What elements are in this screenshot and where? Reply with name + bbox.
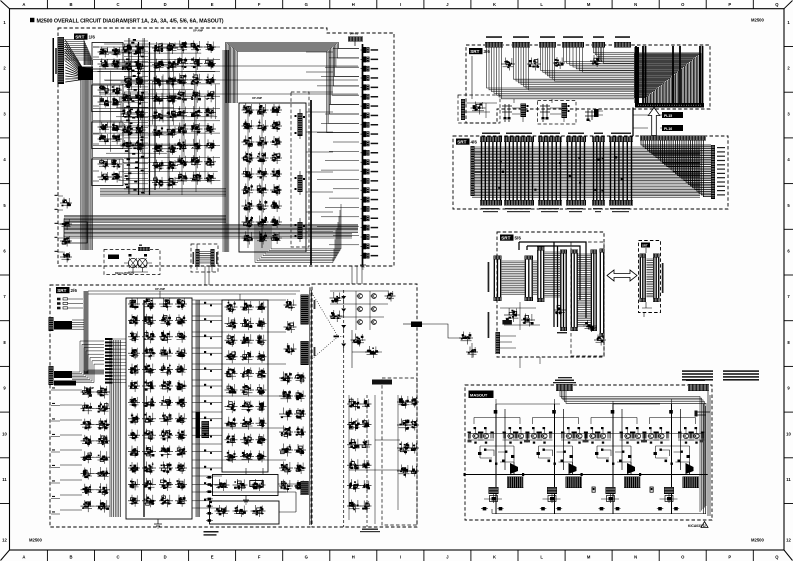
op-amp cell B2-4 [152,97,165,99]
op-amp cell D4 [242,157,255,159]
bus field S5-S6 [578,254,591,326]
driver diode 2 [569,463,577,474]
svg-text:MASOUT: MASOUT [470,393,488,398]
label in regulator box [108,255,119,260]
bus field S3-S4 [545,252,561,297]
op-amp cell B7 [121,145,134,147]
bottom pads 4 [658,507,662,510]
relay RY1 hatched [507,477,524,489]
power stub right [697,412,710,415]
svg-text:OP AMP: OP AMP [252,96,262,100]
label MASOUT [469,391,494,399]
horizontal arrow between B6 and B7 [607,270,637,281]
VR cluster between B3 and B6 [459,337,473,339]
waterfall right B5 [641,141,711,197]
output connector cell O11 [363,141,366,147]
MASOUT channel 2 power amp group [554,404,556,514]
connector group B6 S2 [525,256,534,260]
output bus rail 4 [641,474,708,476]
op-amp cell N5 [225,372,238,374]
label SRT 3/6 [469,48,483,54]
svg-text:SRT: SRT [75,35,84,40]
op-amp cell C7 [176,144,189,146]
connector strip CN41 top bar with label [482,133,500,135]
connector bottom bar CN43 [538,200,562,206]
op-amp cell M3 [128,336,140,338]
op-amp cell R4 [279,431,293,433]
op-amp cell M4 [128,352,140,354]
bias network 3 [597,446,631,462]
op-amp cell M2 [128,319,140,321]
transistor Q22 [542,433,547,438]
output bus rail 2 [524,474,591,476]
op-amp cell N9 [225,439,238,441]
bus bundle to output connectors [333,48,359,50]
op-amp cell N7 [225,406,238,408]
svg-text:P: P [728,2,731,7]
connector group B6 S1 [494,256,502,260]
svg-text:I: I [400,554,401,559]
bus bundle band3 [64,234,352,239]
op-amp cell M13 [128,500,140,502]
op-amp cell A4 [98,101,111,103]
interconnect mesh wires left half [104,43,198,45]
title M2500 OVERALL CIRCUIT DIAGRAM [30,18,34,22]
svg-text:H: H [352,2,355,7]
svg-text:M2500: M2500 [751,538,764,543]
connector pin columns CN41 [482,142,501,200]
op-amp cell C5 [176,112,189,114]
driver diode 4 [686,463,694,474]
svg-text:A: A [22,554,25,559]
connector pin columns CN46 [611,142,632,200]
vertical bus left of SRT 1/6 [81,72,93,250]
svg-text:B: B [69,2,72,7]
op-amp cell B5 [121,113,134,115]
dashed sub-box regulator [104,250,160,275]
transistor Q34 [635,433,640,438]
connector group B6 S7 [600,249,605,253]
MASOUT channel 1 power amp group [495,404,497,514]
op-amp cell B6 [121,129,134,131]
op-amp cell M10 [128,451,140,453]
inner dashed partitions B3 [343,290,345,527]
cell B3L4 [347,464,361,466]
rotated label right of B7 [662,263,664,293]
svg-text:M2500: M2500 [751,18,764,23]
connector pin columns CN44 [568,142,585,200]
op-amp cell C1 [176,46,189,48]
connector group B6 S6 [591,250,598,254]
transistor Q23 [566,433,571,438]
label under B6 [558,377,572,378]
block SRT 5/6 dashed border [497,232,604,357]
transistor array top B3 [358,294,363,299]
output connector cell O12 [363,150,366,156]
op-amp cell C3 [176,79,189,81]
inner dashed box B6 [571,242,604,356]
svg-text:2/6: 2/6 [71,288,78,293]
connector strip CN36 with label [615,36,630,38]
connector group B7 right [653,254,660,258]
output connector cell O5 [363,84,366,90]
left edge pin stubs B2 [51,389,60,391]
op-amp cell M5 [128,369,140,371]
op-amp cell L5 [81,456,94,458]
svg-text:B: B [69,554,72,559]
resistor ladder [105,338,113,340]
transistor Q32 [600,433,605,438]
transistor Q43 [683,433,688,438]
op-amp cell N10 [225,455,238,457]
label box PL15 [662,112,683,118]
svg-text:10: 10 [786,431,791,436]
output connector cell O1 [363,47,366,53]
row stub wires between rects B2 [192,303,222,305]
svg-text:SRT: SRT [57,288,66,293]
stubs B7 [642,248,652,317]
transistor Q12 [483,433,488,438]
connector bar PA input B [49,366,54,385]
tiny labels right of strips B2 [314,300,316,309]
svg-text:11: 11 [2,477,7,482]
mid cluster group G3 [585,110,595,120]
op-amp cell D6 [242,189,255,191]
mesh wires B2 [192,299,286,301]
op-amp cell L3 [81,424,94,426]
dense ladder band components [133,39,136,41]
connector cell F1 [60,202,72,204]
vertical bus mid B2 [196,300,199,517]
svg-text:OP AMP: OP AMP [155,287,165,291]
cell B3L6 [347,505,361,507]
op-amp cell C2 [176,62,189,64]
svg-text:OP AMP: OP AMP [193,29,203,33]
op-amp cell M12 [128,483,140,485]
output connector cell O3 [363,66,366,72]
output cell P3 [251,484,266,486]
right rail pair B2 [310,290,312,525]
right labels B5 [717,147,725,148]
op-amp cell B2-9 [152,181,165,183]
op-amp cell L2 [81,407,94,409]
op-amp cell A5 [98,126,111,128]
top connector CN81 label [555,380,574,382]
dense vertical waterfall block B4 [634,53,701,103]
output connector cell O21 [363,234,366,240]
text CH label bottom B6 [557,332,567,333]
dashed sub-box bottom center [191,244,218,272]
op-amp cell D3 [242,141,255,143]
cluster bottom center B6 [554,309,567,311]
connector bottom bar CN45 [592,200,605,206]
svg-text:12: 12 [2,538,7,543]
block SRT 3/6 dashed border [466,45,710,123]
vertical bus center [223,50,229,252]
block SRT 6/6 dashed border [639,241,661,313]
svg-text:4/6: 4/6 [471,140,478,145]
op-amp cell D2 [242,125,255,127]
transistor Q14 [518,433,523,438]
wires cluster to right edge B2 [246,468,300,512]
mid op-amp solid rect [126,298,192,519]
thick verticals through waterfall [636,46,703,103]
output connector cell O22 [363,243,366,249]
op-amp cell N3 [225,339,238,341]
op-amp cell M6 [128,385,140,387]
op-amp cell R3 [279,413,293,415]
rotated MUTE label and strip in stub zone B2 [196,412,201,438]
sub cluster under strips B4a [501,63,515,65]
op-amp cell B2-6 [152,131,165,133]
bus bundle band1 [64,216,226,223]
transistor Q13 [508,433,513,438]
vertical bus band below ladder [110,340,121,517]
op-amp cell D9 [242,237,255,239]
connector bottom bar CN41 [480,200,502,206]
vertical bus from top [84,291,88,374]
op-amp cell C8 [176,161,189,163]
right edge verticals MASOUT [704,391,711,516]
frame corner diagonals [1,1,10,9]
ground at output rail bottom [360,265,366,269]
transistor Q24 [577,433,582,438]
op-amp cell R7 [279,485,293,487]
right edge connector strip B2 bottom [301,481,309,495]
ground symbol in cluster B2 [243,495,249,504]
relay RY4 hatched [683,477,700,489]
op-amp cell M1 [128,303,140,305]
wires lower B3 [349,395,404,524]
op-amp cell N1 [225,306,238,308]
op-amp cell M11 [128,467,140,469]
connector bar PA input A [49,317,54,331]
op-amp cell D5 [242,173,255,175]
bus B7 [647,259,654,297]
op-amp cell B1 [121,49,134,51]
emitter resistor rail 2 [528,433,586,435]
bus bundle bottom nested [255,224,333,263]
svg-text:1/6: 1/6 [89,35,96,40]
output bus rail 3 [582,474,649,476]
regulator IC circles [128,258,137,267]
op-amp cell D8 [242,221,255,223]
connector group B6 S4 [560,250,567,254]
op-amp cell A2 [98,63,111,65]
row branch wires B1 [93,46,220,48]
svg-text:SRT: SRT [470,49,479,54]
driver diode 3 [627,463,635,474]
cell B3L3 [347,444,361,446]
muting transistor stack 2 [547,487,557,494]
bus bar bottom of waterfall [635,103,704,108]
svg-text:[PA-9]: [PA-9] [350,32,358,36]
op-amp cell A6 [98,138,111,140]
svg-text:F: F [258,554,261,559]
bottom pads 1 [483,507,487,510]
sub cluster under strips B4b [527,63,541,65]
svg-text:F: F [258,2,261,7]
svg-text:3/6: 3/6 [484,49,491,54]
svg-text:G: G [305,2,308,7]
cell B3R4 [397,470,411,472]
bus bundle horizontal mid [100,189,226,197]
cells around transistor array [330,297,343,299]
op-amp cell R2 [279,395,293,397]
output connector cell O8 [363,113,366,119]
op-amp cell M9 [128,434,140,436]
svg-text:D: D [164,554,167,559]
ladder band rails [129,38,130,194]
solid borders around column A groups [92,43,123,70]
svg-text:C: C [116,2,119,7]
heavy rail right of op rect [310,100,312,265]
ground B2 bottom [154,519,162,528]
heavy vertical rails [139,42,150,195]
thick routing loops B6 [519,242,586,327]
op-amp cell B2 [121,65,134,67]
right edge connector strip B2 upper [301,295,309,325]
connector strip CN35 with label [593,36,604,38]
op-amp cell L7 [81,489,94,491]
connector bottom bar CN44 [566,200,586,206]
op-amp cell C6 [176,128,189,130]
transistor Q31 [590,433,595,438]
wires to PL boxes [633,115,662,128]
bottom pads 3 [600,507,604,510]
muting transistor stack 4 [664,487,674,494]
op-amp cell L8 [81,505,94,507]
transistor Q21 [531,433,536,438]
output connector cell O15 [363,178,366,184]
mid cluster B3 [351,339,366,341]
transistor Q42 [659,433,664,438]
left connector cluster B4 [458,95,500,123]
vertical bus pair mid [155,45,156,190]
svg-text:D: D [164,2,167,7]
block MASOUT dashed border [465,385,712,520]
input jack cluster top left [57,298,61,301]
right edge strip B5 [711,145,715,199]
op-amp cell L4 [81,440,94,442]
second op-amp solid rect [222,300,268,472]
svg-text:SRT: SRT [501,236,510,241]
svg-text:11: 11 [786,477,791,482]
op-amp cell A7 [98,163,111,165]
pin drop wires and nested bundles B4 [487,48,635,89]
right edge connector strip B2 lower [301,341,309,365]
mid cluster group G1 between B4 B5 [502,104,512,122]
output cell P1 [215,484,230,486]
svg-text:SRT: SRT [457,140,466,145]
connector strip CN33 with label [540,36,555,38]
op-amp cell B4 [121,97,134,99]
connector strip CN34 with label [563,36,583,38]
output connector cell O19 [363,215,366,221]
transistor Q11 [473,433,478,438]
op-amp cell D1 [242,109,255,111]
left pin stubs of bottom cluster B2 [208,476,212,479]
label SRT 1/6 [74,34,88,40]
cell B3L2 [347,423,361,425]
svg-text:12: 12 [786,538,791,543]
output connector rail [362,44,364,265]
wire fan from CN101 [64,40,84,66]
svg-text:M: M [587,554,591,559]
fader connector E3 [298,222,303,239]
output bus rail 1 [465,474,532,476]
op-amp cell N6 [225,389,238,391]
connector pin columns CN45 [594,142,604,200]
cell B3R1 [397,401,411,403]
svg-text:E: E [211,554,214,559]
output cell P2 [233,484,248,486]
component pads on B5 bus [579,182,581,184]
op-amp cell B2-7 [152,148,165,150]
op-amp cell L1 [81,391,94,393]
mid box in cluster B2 [250,481,263,487]
top right connector CN82 label [686,380,705,382]
connector strip CN31 with label [486,36,502,38]
op-amp cell C4 [176,95,189,97]
bottom cluster box 2 B2 [210,501,280,524]
cell B3L5 [347,485,361,487]
output connector cell O16 [363,187,366,193]
svg-text:P: P [728,554,731,559]
svg-text:K: K [493,2,496,7]
connector strip CN43 top bar with label [540,133,560,135]
TO flag symbols [592,487,595,492]
op-amp cell R1 [279,377,293,379]
output connector cell O17 [363,197,366,203]
op-amp cell B2-3 [152,81,165,83]
connector group B6 S3 [537,247,545,251]
op-amp block solid border [239,103,306,252]
wire from B4 label down [471,56,473,99]
wire B6 bottom to MASOUT area [520,357,540,368]
op-amp cell B3 [121,81,134,83]
op-amp cell R6 [279,467,293,469]
connector strip CN45 top bar with label [594,133,603,135]
output connector cell O13 [363,159,366,165]
label SRT 2/6 [56,287,70,293]
svg-text:I: I [400,2,401,7]
svg-text:REGULATOR+5V: REGULATOR+5V [115,272,135,275]
top connector CN81 [556,384,573,391]
left edge pin stubs [58,195,63,197]
op-amp cell C9 [176,177,189,179]
emitter resistor rail 3 [586,433,644,435]
op-amp cell L6 [81,473,94,475]
signal list text right column [723,370,759,372]
emitter resistor rail 4 [645,433,703,435]
bottom left cluster B6 [504,314,520,316]
bottom pads 2 [541,507,545,510]
vertical arrow between B4 and B5 [648,108,660,136]
svg-text:M2500: M2500 [29,538,42,543]
heavy vertical rail inside mid rect B2 [143,300,145,517]
arrowheads on B3 inner dashed rail [341,296,346,299]
output connector cell O23 [363,253,366,259]
connector cell F4 [60,256,72,258]
output connector cell O6 [363,94,366,100]
op-amp cell N8 [225,422,238,424]
transistor Q41 [648,433,653,438]
long row wires to connector rail [100,66,358,94]
block SRT 1/6 dashed border [58,28,394,266]
svg-text:G: G [305,554,308,559]
svg-text:N: N [634,554,637,559]
